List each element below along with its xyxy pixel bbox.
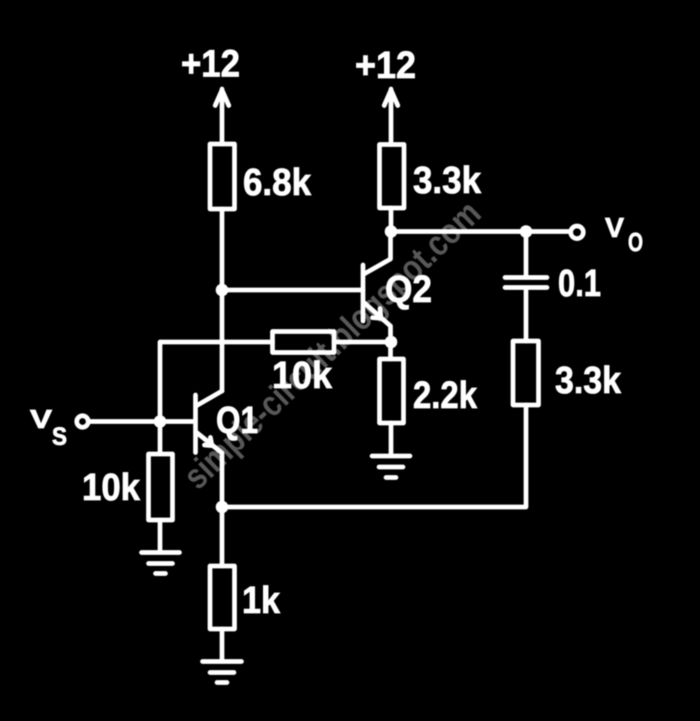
svg-text:3.3k: 3.3k xyxy=(413,160,482,202)
svg-text:2.2k: 2.2k xyxy=(413,375,478,417)
svg-text:3.3k: 3.3k xyxy=(555,360,622,402)
svg-text:S: S xyxy=(52,423,67,451)
svg-text:Q2: Q2 xyxy=(385,269,432,311)
svg-text:Q1: Q1 xyxy=(216,400,258,442)
svg-text:10k: 10k xyxy=(82,467,141,509)
svg-text:0.1: 0.1 xyxy=(558,263,601,305)
svg-text:1k: 1k xyxy=(242,580,281,622)
svg-text:+12: +12 xyxy=(355,45,416,87)
svg-text:6.8k: 6.8k xyxy=(243,162,312,204)
svg-text:V: V xyxy=(605,212,624,243)
svg-text:10k: 10k xyxy=(272,355,333,397)
svg-text:+12: +12 xyxy=(181,44,240,86)
svg-text:O: O xyxy=(628,227,643,257)
svg-text:V: V xyxy=(30,404,53,434)
